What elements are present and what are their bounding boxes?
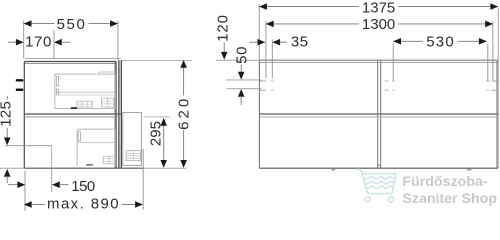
svg-text:1375: 1375 (362, 0, 395, 16)
svg-text:Szaniter Shop: Szaniter Shop (402, 191, 497, 207)
svg-text:120: 120 (214, 14, 231, 42)
svg-text:1300: 1300 (362, 16, 395, 33)
svg-text:170: 170 (25, 34, 52, 51)
svg-text:295: 295 (148, 121, 165, 146)
svg-text:620: 620 (175, 96, 192, 130)
svg-text:35: 35 (291, 33, 309, 50)
svg-text:530: 530 (426, 33, 455, 50)
svg-text:max. 890: max. 890 (47, 196, 120, 211)
svg-text:550: 550 (57, 16, 87, 33)
svg-text:150: 150 (71, 178, 95, 195)
svg-text:Fürdőszoba-: Fürdőszoba- (402, 174, 487, 190)
svg-text:125: 125 (0, 101, 14, 127)
svg-text:50: 50 (234, 46, 251, 64)
